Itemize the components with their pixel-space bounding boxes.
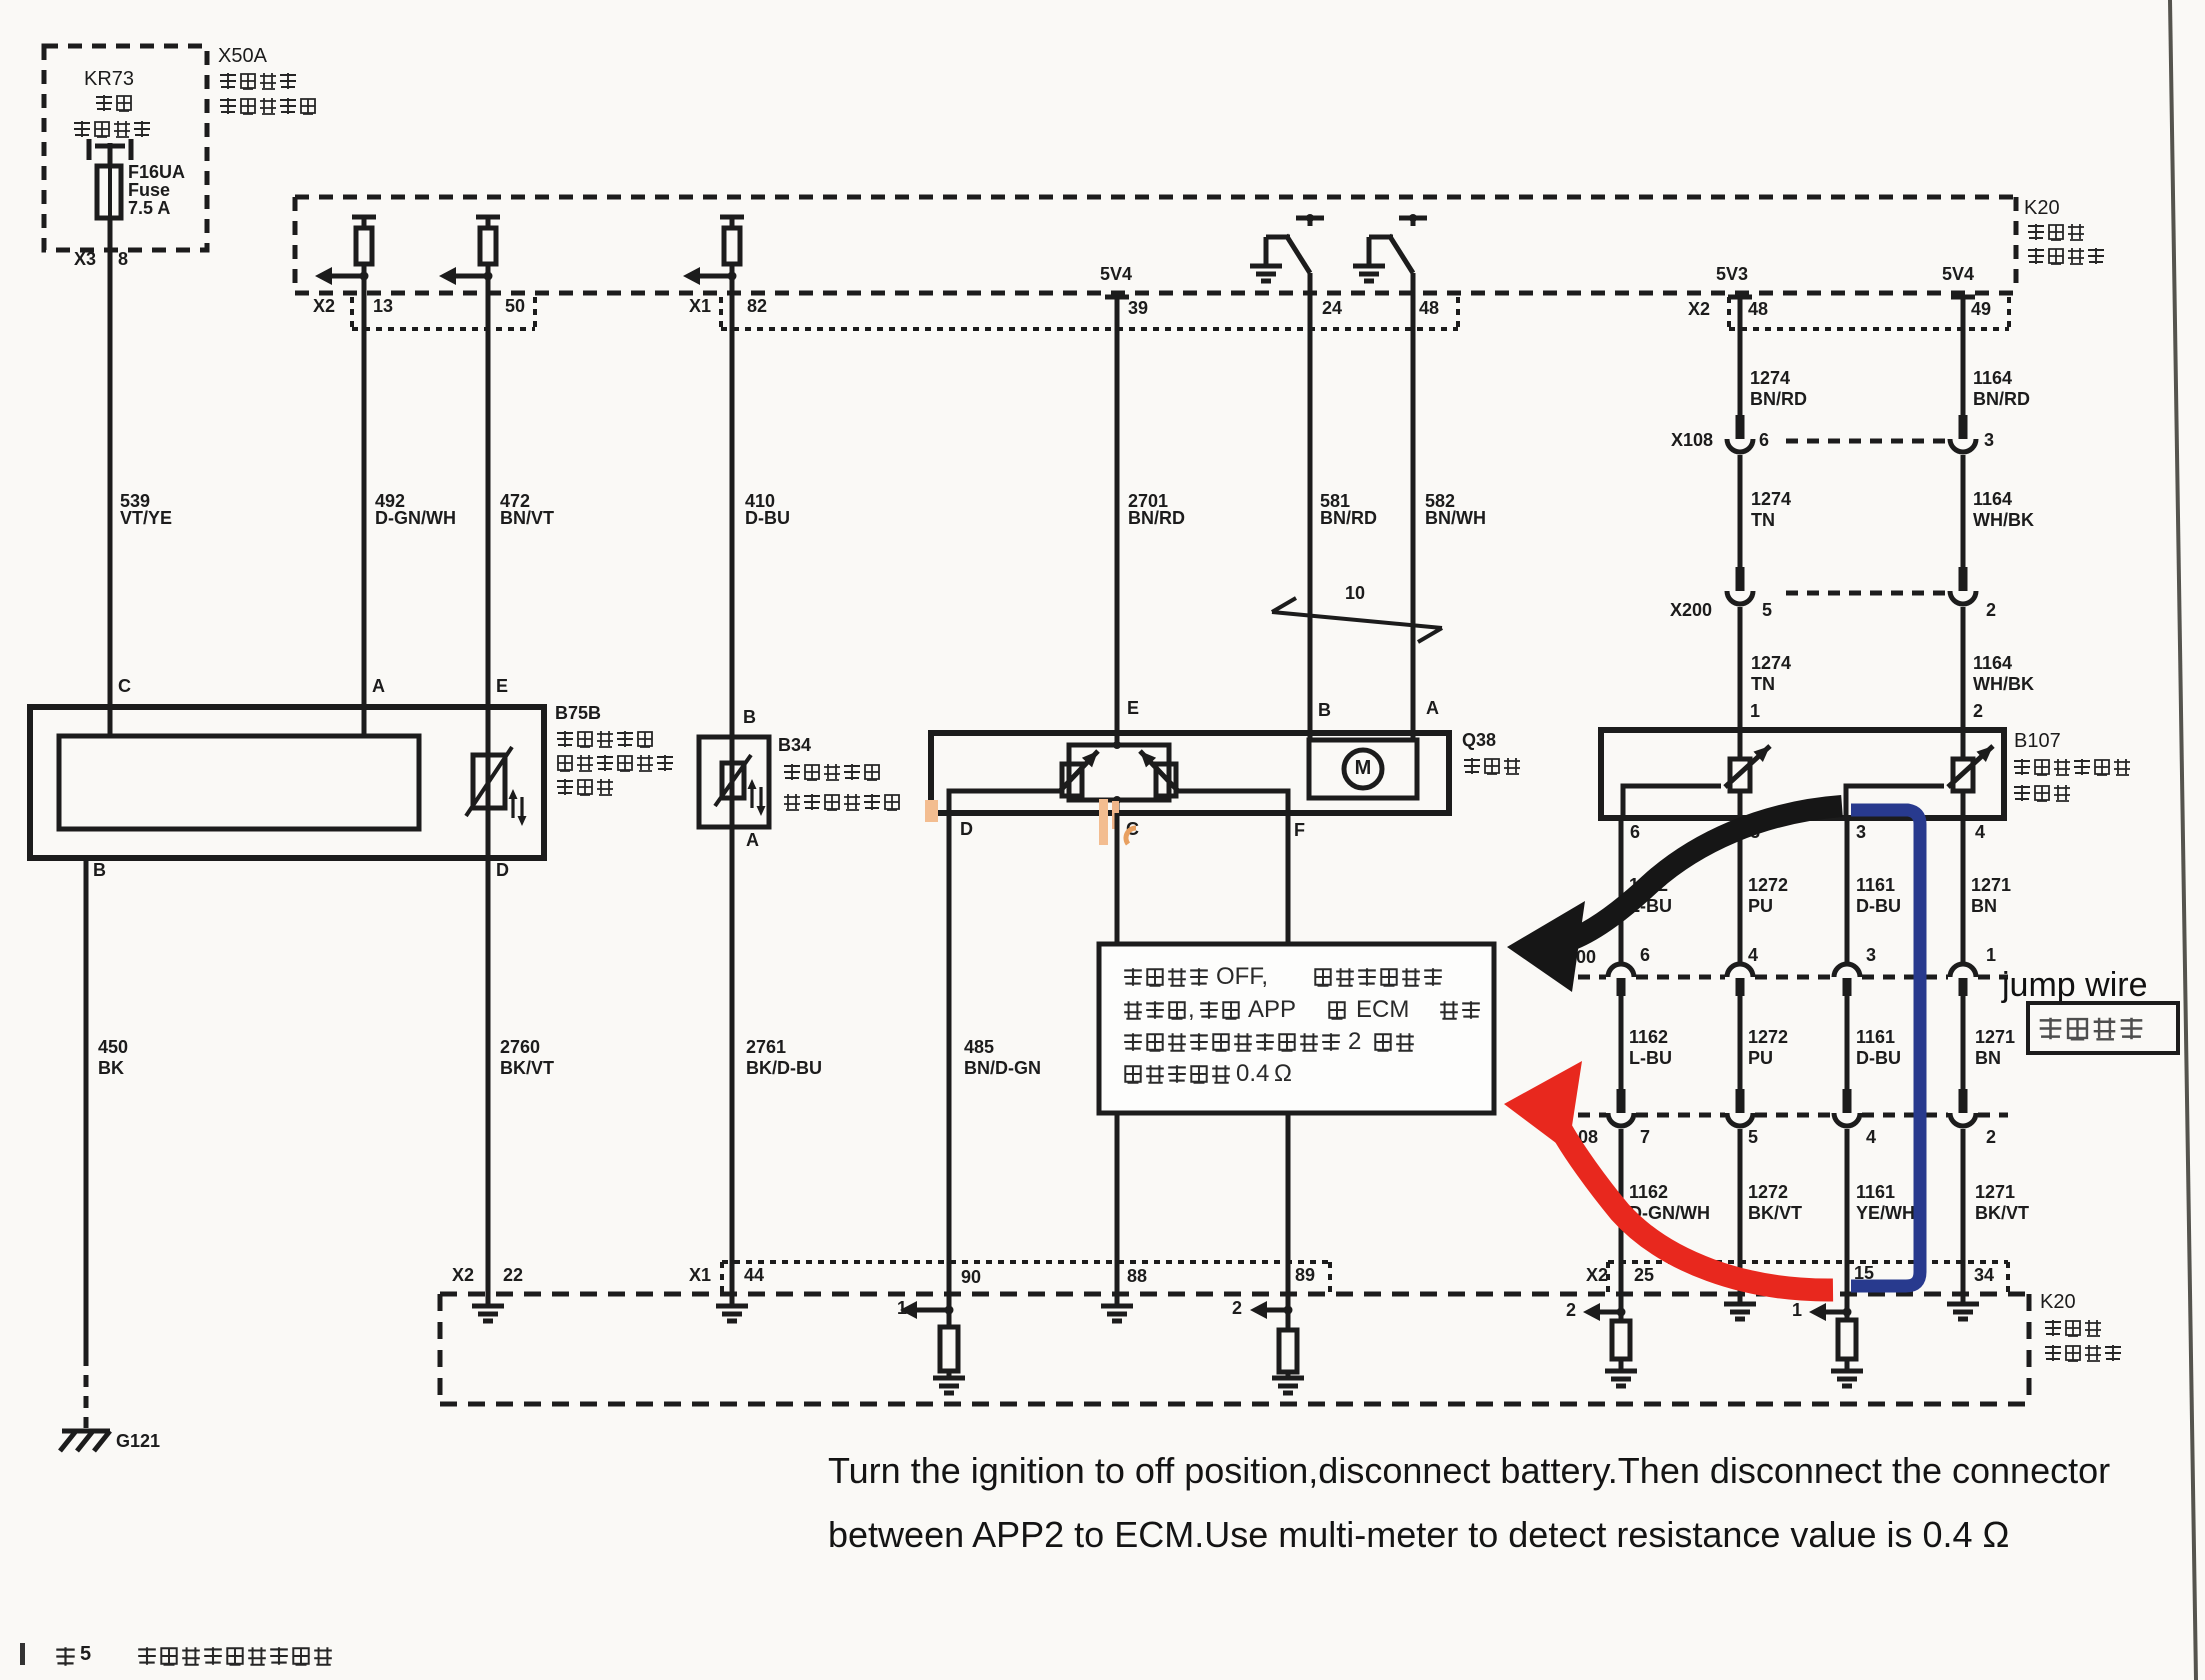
label control module — [2028, 248, 2044, 264]
svg-text:G121: G121 — [116, 1431, 160, 1451]
figure caption tick — [20, 1643, 25, 1665]
svg-text:5V4: 5V4 — [1942, 264, 1974, 284]
svg-text:1274: 1274 — [1751, 653, 1791, 673]
svg-text:X2: X2 — [452, 1265, 474, 1285]
svg-text:PU: PU — [1748, 1048, 1773, 1068]
svg-text:BK/VT: BK/VT — [1975, 1203, 2029, 1223]
fuse F16UA — [97, 166, 121, 218]
svg-text:BN/WH: BN/WH — [1425, 508, 1486, 528]
svg-text:2: 2 — [1986, 1127, 1996, 1147]
red arrow to instruction box — [1562, 1131, 1833, 1290]
ECM K20 top dashed box — [295, 195, 2016, 200]
wire 1164 BN/RD — [1961, 297, 1966, 415]
wire 410 D-BU — [730, 264, 735, 798]
arrow 2 pin 25 — [1599, 1310, 1621, 1315]
5V supply ticks — [1105, 295, 1129, 300]
svg-text:2: 2 — [1986, 600, 1996, 620]
APP pot 2 wire — [1961, 730, 1966, 759]
svg-text:89: 89 — [1295, 1265, 1315, 1285]
X200 connector pin 3 — [1834, 964, 1860, 977]
svg-text:39: 39 — [1128, 298, 1148, 318]
motor M — [1344, 750, 1382, 788]
wire 539 VT/YE — [108, 218, 113, 736]
svg-text:D: D — [496, 860, 509, 880]
svg-text:88: 88 — [1127, 1266, 1147, 1286]
ground under wire 1272 — [1724, 1302, 1756, 1307]
wire stub pin 25 — [1619, 1294, 1624, 1321]
instruction line 2 — [1124, 1001, 1142, 1019]
ECM K20 bottom dashed box — [440, 1292, 2029, 1297]
bundle crossing mark 10 — [1272, 612, 1442, 628]
internal wire D — [949, 791, 1062, 813]
svg-text:90: 90 — [961, 1267, 981, 1287]
label intake air temp — [558, 756, 572, 771]
svg-text:Ω: Ω — [1274, 1060, 1292, 1087]
svg-text:1: 1 — [1986, 945, 1996, 965]
resistor pin 25 — [1612, 1321, 1630, 1359]
X200 connector pin 4 — [1727, 964, 1753, 977]
jump wire blue highlight — [1851, 810, 1920, 1286]
svg-text:B: B — [743, 707, 756, 727]
svg-text:4: 4 — [1975, 822, 1985, 842]
wire 485 BN/D-GN — [947, 813, 952, 1294]
X200 connector pin 6 — [1608, 964, 1634, 977]
label control module bottom — [2045, 1345, 2061, 1361]
svg-text:TN: TN — [1751, 510, 1775, 530]
svg-text:E: E — [1127, 698, 1139, 718]
ground pin 88 — [1101, 1304, 1133, 1309]
svg-text:F: F — [1294, 820, 1305, 840]
svg-text:34: 34 — [1974, 1265, 1994, 1285]
instruction line 4 — [1125, 1066, 1140, 1083]
svg-text:D-GN/WH: D-GN/WH — [375, 508, 456, 528]
wire from throttle F to pin 89 — [1286, 813, 1291, 1294]
wire 1164 WH/BK lower — [1961, 607, 1966, 730]
wire+ground pin 25 — [1619, 1359, 1624, 1371]
wire 1164 WH/BK — [1961, 455, 1966, 567]
svg-text:1: 1 — [897, 1298, 907, 1318]
svg-text:1162: 1162 — [1629, 1027, 1668, 1047]
svg-text:1164: 1164 — [1973, 489, 2012, 509]
arrow 1 pin 90 — [916, 1308, 949, 1313]
label sensor — [557, 779, 573, 795]
figure caption title — [138, 1647, 156, 1665]
svg-text:K20: K20 — [2024, 197, 2060, 219]
svg-text:48: 48 — [1748, 299, 1768, 319]
wire stub pin 89 — [1286, 1294, 1291, 1332]
svg-text:49: 49 — [1971, 299, 1991, 319]
svg-text:X2: X2 — [313, 296, 335, 316]
svg-text:5V3: 5V3 — [1716, 264, 1748, 284]
svg-text:BK/VT: BK/VT — [500, 1058, 554, 1078]
svg-text:1274: 1274 — [1751, 489, 1791, 509]
svg-text:1161: 1161 — [1856, 1182, 1895, 1202]
svg-text:1274: 1274 — [1750, 368, 1790, 388]
TPS pot 1 — [1062, 764, 1082, 796]
B75B inner element box — [59, 736, 419, 829]
svg-text:13: 13 — [373, 296, 393, 316]
label sensor — [2014, 785, 2030, 801]
ground pin 22 — [472, 1304, 504, 1309]
APP pot 1 — [1730, 759, 1750, 791]
thermistor in B34 — [722, 763, 744, 798]
svg-text:X1: X1 — [689, 296, 711, 316]
wire 1274 BN/RD — [1738, 297, 1743, 415]
svg-text:X2: X2 — [1586, 1265, 1608, 1285]
svg-text:TN: TN — [1751, 674, 1775, 694]
svg-text:VT/YE: VT/YE — [120, 508, 172, 528]
X200 dashes — [1786, 591, 1947, 596]
svg-text:50: 50 — [505, 296, 525, 316]
wire 1271 BK/VT seg3 — [1961, 1129, 1966, 1306]
wire stub pin 90 — [947, 1294, 952, 1327]
svg-text:1271: 1271 — [1975, 1182, 2015, 1202]
wire stub pin 44 — [730, 1294, 735, 1307]
svg-text:L-BU: L-BU — [1629, 1048, 1672, 1068]
wire 450 BK — [84, 858, 89, 1366]
label accel pedal position — [2014, 759, 2030, 775]
resistor in ECM pin 50 — [476, 215, 500, 220]
wire 1274 TN — [1738, 455, 1743, 567]
throttle motor box — [1309, 740, 1417, 798]
svg-text:1162: 1162 — [1629, 1182, 1668, 1202]
svg-text:2761: 2761 — [746, 1037, 786, 1057]
APP pot2 low ref leg — [1846, 786, 1944, 818]
svg-text:1272: 1272 — [1748, 875, 1788, 895]
relay KR73 contact symbol — [87, 139, 92, 160]
wire 1272 PU seg2 — [1738, 996, 1743, 1089]
svg-text:2: 2 — [1232, 1298, 1242, 1318]
APP pot 1 wire — [1738, 730, 1743, 759]
wire relay to fuse — [108, 143, 113, 166]
svg-text:1161: 1161 — [1856, 875, 1895, 895]
label main relay — [74, 121, 90, 137]
svg-text:5: 5 — [1748, 1127, 1758, 1147]
wire 1271 BN seg2 — [1961, 996, 1966, 1089]
label throttle — [1464, 758, 1480, 774]
svg-text:BN/VT: BN/VT — [500, 508, 554, 528]
wire 581 BN/RD — [1308, 273, 1313, 740]
svg-text:1271: 1271 — [1971, 875, 2011, 895]
resistor in ECM pin 13 — [352, 215, 376, 220]
label fuse block — [220, 73, 236, 89]
svg-text:between APP2 to ECM.Use multi-: between APP2 to ECM.Use multi-meter to d… — [828, 1514, 2009, 1555]
svg-text:B75B: B75B — [555, 703, 601, 723]
svg-text:BK/VT: BK/VT — [1748, 1203, 1802, 1223]
X108 dashes — [1786, 439, 1947, 444]
X200 connector pin 1 — [1950, 964, 1976, 977]
arrow 2 pin 89 — [1266, 1308, 1288, 1313]
svg-text:24: 24 — [1322, 298, 1342, 318]
wire 1161 YE/WH seg3 — [1845, 1129, 1850, 1294]
connector X200 row1 right — [1959, 567, 1968, 591]
svg-text:X50A: X50A — [218, 45, 268, 67]
wire stub pin 15 — [1845, 1294, 1850, 1320]
wire 2760 BK/VT — [486, 858, 491, 1294]
svg-text:1164: 1164 — [1973, 368, 2012, 388]
resistor in ECM pin 82 — [720, 215, 744, 220]
arrow pin 82 — [699, 274, 732, 279]
svg-text:44: 44 — [744, 1265, 764, 1285]
instruction line 3 — [1124, 1033, 1142, 1051]
svg-text:BN: BN — [1975, 1048, 2001, 1068]
label engine coolant — [784, 764, 800, 780]
svg-text:Turn the ignition to off posit: Turn the ignition to off position,discon… — [828, 1450, 2110, 1491]
wire 1162 L-BU seg2 — [1619, 996, 1624, 1089]
internal wiper wire C — [1115, 800, 1120, 813]
arrow pin 13 — [331, 274, 364, 279]
svg-text:D-BU: D-BU — [1856, 1048, 1901, 1068]
jump wire CJK box — [2028, 1003, 2178, 1053]
svg-text:,: , — [1188, 996, 1195, 1023]
wire 1272 PU seg1 — [1738, 818, 1743, 963]
svg-text:D: D — [960, 819, 973, 839]
wire from throttle C to pin 88 — [1115, 813, 1120, 1308]
switch to ground pin 48 — [1399, 216, 1427, 221]
svg-text:2: 2 — [1348, 1028, 1361, 1055]
svg-text:X2: X2 — [1688, 299, 1710, 319]
svg-text:450: 450 — [98, 1037, 128, 1057]
svg-text:0.4: 0.4 — [1236, 1060, 1269, 1087]
fuse box X50A dashed outline — [44, 46, 207, 250]
resistor pin 90 — [940, 1327, 958, 1371]
ground pin 44 — [716, 1304, 748, 1309]
label engine bottom — [2045, 1320, 2061, 1336]
svg-text:jump wire: jump wire — [2001, 966, 2147, 1004]
svg-text:2: 2 — [1566, 1300, 1576, 1320]
svg-text:2760: 2760 — [500, 1037, 540, 1057]
svg-text:WH/BK: WH/BK — [1973, 674, 2034, 694]
svg-text:6: 6 — [1759, 430, 1769, 450]
svg-text:3: 3 — [1866, 945, 1876, 965]
svg-text:B34: B34 — [778, 735, 811, 755]
B107 sensor box — [1601, 730, 2004, 818]
svg-text:Fuse: Fuse — [128, 180, 170, 200]
svg-text:BN/RD: BN/RD — [1320, 508, 1377, 528]
svg-text:1161: 1161 — [1856, 1027, 1895, 1047]
B34 sensor box — [699, 737, 769, 827]
wire+ground pin 90 — [947, 1371, 952, 1378]
svg-text:8: 8 — [118, 249, 128, 269]
arrow 1 pin 15 — [1825, 1310, 1847, 1315]
X108 connector pin 7 — [1617, 1089, 1626, 1113]
X200 row2 dashes — [1578, 975, 1606, 980]
svg-text:BN/RD: BN/RD — [1750, 389, 1807, 409]
svg-text:B: B — [1318, 700, 1331, 720]
svg-text:M: M — [1355, 757, 1372, 779]
wire stub pin 22 — [486, 1294, 491, 1307]
svg-text:A: A — [372, 676, 385, 696]
label dianhuo (ignition) — [96, 95, 112, 111]
switch to ground pin 24 — [1296, 216, 1324, 221]
svg-text:25: 25 — [1634, 1265, 1654, 1285]
svg-text:C: C — [118, 676, 131, 696]
connector dotted line top — [352, 327, 535, 331]
wire 582 BN/WH — [1411, 273, 1416, 740]
instruction box — [1099, 944, 1494, 1113]
wire 1272 BK/VT seg3 — [1738, 1129, 1743, 1306]
connector X108 row1 left — [1736, 415, 1745, 439]
X108 connector pin 2 — [1959, 1089, 1968, 1113]
svg-text:4: 4 — [1866, 1127, 1876, 1147]
X108 connector pin 4 — [1843, 1089, 1852, 1113]
svg-text:WH/BK: WH/BK — [1973, 510, 2034, 530]
svg-text:BK: BK — [98, 1058, 124, 1078]
orange watermark remnants — [925, 800, 938, 822]
svg-text:1272: 1272 — [1748, 1027, 1788, 1047]
wire 1162 D-GN/WH seg3 — [1619, 1129, 1624, 1294]
wire 1271 BN seg1 — [1961, 818, 1966, 963]
wire 1161 D-BU seg1 — [1845, 818, 1850, 963]
svg-text:1164: 1164 — [1973, 653, 2012, 673]
label mass air flow — [557, 731, 573, 747]
label under hood — [220, 98, 236, 114]
wire+ground pin 15 — [1845, 1359, 1850, 1371]
svg-text:YE/WH: YE/WH — [1856, 1203, 1915, 1223]
APP pot 2 — [1953, 759, 1973, 791]
arrow pin 50 — [455, 274, 488, 279]
wire 2701 BN/RD — [1115, 297, 1120, 745]
svg-text:5V4: 5V4 — [1100, 264, 1132, 284]
connector X200 row1 left — [1736, 567, 1745, 591]
svg-text:1: 1 — [1792, 1300, 1802, 1320]
svg-text:APP: APP — [1248, 996, 1296, 1023]
svg-text:X1: X1 — [689, 1265, 711, 1285]
thermistor in B75B — [473, 755, 505, 808]
wire+ground pin 89 — [1286, 1372, 1291, 1378]
svg-text:10: 10 — [1345, 583, 1365, 603]
svg-text:BK/D-BU: BK/D-BU — [746, 1058, 822, 1078]
APP pot1 low ref leg — [1623, 786, 1721, 818]
svg-text:X3: X3 — [74, 249, 96, 269]
svg-text:PU: PU — [1748, 896, 1773, 916]
svg-text:6: 6 — [1640, 945, 1650, 965]
svg-text:BN/RD: BN/RD — [1973, 389, 2030, 409]
internal wire F — [1176, 791, 1288, 813]
svg-text:5: 5 — [80, 1643, 91, 1665]
svg-text:X200: X200 — [1670, 600, 1712, 620]
svg-text:2: 2 — [1973, 701, 1983, 721]
svg-text:D-BU: D-BU — [745, 508, 790, 528]
svg-text:BN/D-GN: BN/D-GN — [964, 1058, 1041, 1078]
TPS pot 2 — [1156, 764, 1176, 796]
svg-text:6: 6 — [1630, 822, 1640, 842]
svg-text:A: A — [746, 830, 759, 850]
svg-text:485: 485 — [964, 1037, 994, 1057]
wire 472 BN/VT — [486, 264, 491, 858]
svg-text:48: 48 — [1419, 298, 1439, 318]
ground pin 34 — [1947, 1302, 1979, 1307]
svg-text:82: 82 — [747, 296, 767, 316]
svg-text:BN/RD: BN/RD — [1128, 508, 1185, 528]
svg-text:ECM: ECM — [1356, 996, 1409, 1023]
resistor pin 15 — [1838, 1320, 1856, 1359]
svg-text:K20: K20 — [2040, 1291, 2076, 1313]
label engine — [2028, 224, 2044, 240]
X108 connector pin 5 — [1736, 1089, 1745, 1113]
wire 492 D-GN/WH — [362, 264, 367, 736]
page border line — [2170, 0, 2196, 1680]
svg-text:E: E — [496, 676, 508, 696]
svg-text:F16UA: F16UA — [128, 162, 185, 182]
figure caption fig5 — [56, 1647, 74, 1665]
wire 2761 BK/D-BU — [730, 798, 735, 1294]
instruction line 1 — [1124, 968, 1142, 986]
svg-text:B107: B107 — [2014, 730, 2061, 752]
throttle Q38 outer box — [931, 733, 1449, 813]
connector X108 row1 right — [1959, 415, 1968, 439]
svg-text:A: A — [1426, 698, 1439, 718]
wire 1161 D-BU seg2 — [1845, 996, 1850, 1089]
label temp sensor — [784, 794, 800, 810]
svg-text:BN: BN — [1971, 896, 1997, 916]
X108 row2 dashes — [1578, 1113, 1606, 1118]
svg-text:KR73: KR73 — [84, 68, 134, 90]
black arrow to instruction box — [1573, 806, 1842, 939]
svg-text:3: 3 — [1984, 430, 1994, 450]
svg-text:1271: 1271 — [1975, 1027, 2015, 1047]
svg-text:1: 1 — [1750, 701, 1760, 721]
wire 1162 L-BU seg1 — [1619, 818, 1624, 963]
wire 1274 TN lower — [1738, 607, 1743, 730]
svg-text:3: 3 — [1856, 822, 1866, 842]
connector dotted line bottom — [722, 1260, 1330, 1264]
svg-text:Q38: Q38 — [1462, 730, 1496, 750]
resistor pin 89 — [1279, 1330, 1297, 1372]
svg-text:5: 5 — [1762, 600, 1772, 620]
svg-text:7: 7 — [1640, 1127, 1650, 1147]
svg-text:B: B — [93, 860, 106, 880]
svg-text:7.5 A: 7.5 A — [128, 198, 170, 218]
TPS dual pot sub-box — [1069, 745, 1169, 800]
svg-text:X108: X108 — [1671, 430, 1713, 450]
B75B sensor outer box — [30, 707, 544, 858]
svg-text:D-BU: D-BU — [1856, 896, 1901, 916]
svg-text:1272: 1272 — [1748, 1182, 1788, 1202]
ground G121 — [62, 1429, 110, 1434]
svg-text:22: 22 — [503, 1265, 523, 1285]
svg-text:4: 4 — [1748, 945, 1758, 965]
svg-text:OFF,: OFF, — [1216, 963, 1268, 990]
